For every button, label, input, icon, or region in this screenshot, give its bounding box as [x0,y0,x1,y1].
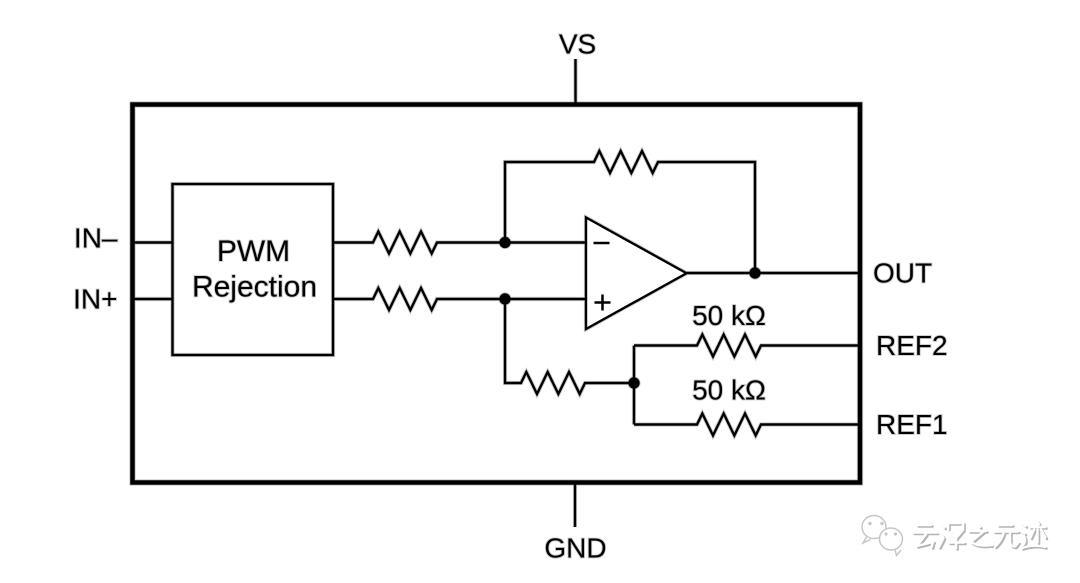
char shen shadow [941,525,966,550]
op-amp U1 [586,218,687,330]
svg-text:REF2: REF2 [876,330,948,361]
svg-text:VS: VS [559,29,596,60]
svg-text:50 kΩ: 50 kΩ [692,300,766,331]
svg-text:IN+: IN+ [73,284,117,315]
svg-text:Rejection: Rejection [192,271,317,304]
IC boundary box [133,105,861,483]
watermark text (stroke approximation of Chinese characters) [913,521,1047,550]
svg-text:50 kΩ: 50 kΩ [692,375,766,406]
junction node B (non-inverting input) [499,293,510,304]
char yun shadow [915,527,939,549]
resistor 50k to REF2 [634,335,858,357]
op-amp plus sign [595,295,611,311]
svg-text:PWM: PWM [217,235,290,268]
svg-text:IN–: IN– [74,223,118,254]
char wu shadow [996,527,1021,549]
pin VS wire [574,59,576,104]
resistor R2 (PWM to non-inverting input) [333,288,586,310]
output wire [687,272,859,274]
watermark logo (chat bubbles) [862,516,903,556]
svg-text:GND: GND [544,533,606,564]
char ji shadow [1023,523,1048,550]
vertical wire joining REF resistors [633,346,635,425]
feedback loop wire with resistor RF [505,151,755,273]
svg-text:REF1: REF1 [876,409,948,440]
junction node output [749,267,760,278]
resistor R1 (PWM to inverting input) [333,232,586,254]
junction node C (REF divider) [628,377,639,388]
svg-text:OUT: OUT [873,258,932,289]
resistor 50k to REF1 [634,414,858,436]
pin GND wire [574,483,576,527]
soft edge halo underlay (decorative) [73,29,947,564]
wire IN- to PWM block [134,241,173,243]
wire IN+ to PWM block [134,298,173,300]
wire non-inverting node down to gain resistor R3 [505,299,634,394]
op-amp minus sign [594,242,610,245]
char zhi shadow [971,525,994,548]
block PWM Rejection [173,184,334,355]
junction node A (inverting input) [499,237,510,248]
